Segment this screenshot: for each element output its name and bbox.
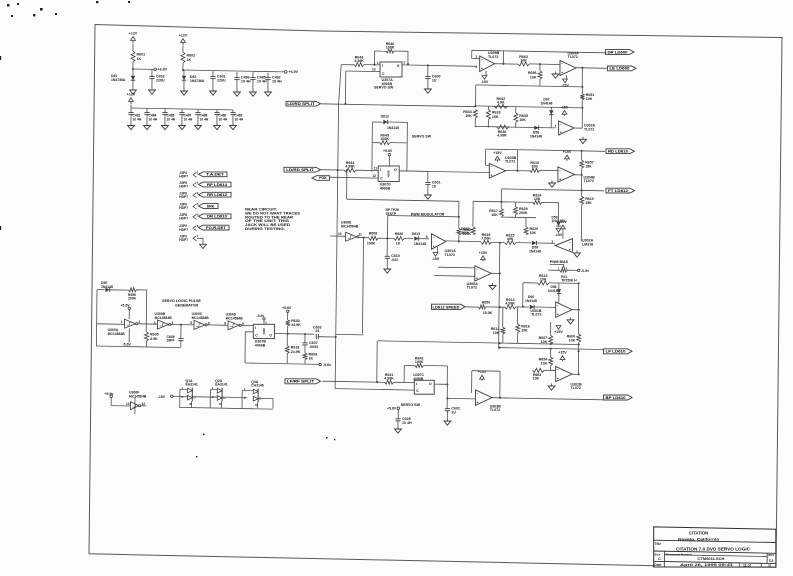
svg-text:+: +	[477, 401, 479, 405]
capacitor C607	[302, 341, 318, 349]
wire net498 vert	[499, 243, 500, 350]
label U300C	[192, 312, 210, 320]
power +12V node 1	[129, 32, 138, 44]
svg-text:10K: 10K	[540, 277, 547, 281]
wire U300D out	[242, 324, 254, 326]
wire osc loop top b	[110, 289, 129, 291]
resistor R616	[516, 324, 530, 333]
label D61	[111, 74, 126, 82]
wire U301B out	[572, 309, 579, 311]
op-amp U305B	[480, 56, 495, 72]
label SERVO SW U307C	[401, 403, 421, 407]
wire C605 gnd	[397, 421, 399, 427]
wire R643 in	[341, 64, 354, 66]
title text Novato	[678, 536, 720, 541]
label SERVO SW U307D	[412, 134, 432, 138]
diode D56	[534, 126, 538, 130]
label U300B	[155, 312, 173, 320]
resistor R624	[533, 193, 542, 204]
wire R645 left	[372, 142, 379, 144]
net tag RD LD610	[606, 149, 635, 154]
wire U307D out to pin6	[399, 171, 487, 173]
wire C485 to gnd	[252, 80, 254, 90]
pin 6 U300C	[208, 321, 210, 325]
svg-text:R650: R650	[482, 300, 490, 304]
wire R640 right	[407, 51, 409, 64]
svg-text:D613: D613	[412, 232, 420, 236]
svg-text:+: +	[476, 276, 478, 280]
junction long net LDRD2	[337, 169, 339, 171]
svg-text:10 4H: 10 4H	[133, 117, 142, 121]
junction LE tap	[581, 67, 583, 69]
wire U303B pin6 stub	[487, 172, 490, 174]
wire C610 stub	[386, 238, 388, 256]
svg-text:-15V: -15V	[481, 80, 489, 84]
svg-text:8: 8	[224, 322, 226, 326]
wire R644 to U307D	[356, 169, 378, 171]
svg-text:2: 2	[404, 61, 406, 65]
label R11	[561, 275, 577, 283]
svg-text:10K: 10K	[530, 231, 537, 235]
svg-text:10K: 10K	[519, 118, 526, 122]
svg-text:FO.R.DET: FO.R.DET	[206, 226, 227, 230]
power +15V U301B	[554, 326, 563, 335]
wire R616 top	[517, 307, 519, 324]
label C485	[167, 114, 176, 122]
label D62	[190, 75, 205, 83]
wire C485 stub	[164, 109, 166, 113]
svg-text:CA3146: CA3146	[251, 383, 264, 387]
label D58 upper	[548, 285, 560, 293]
label PWM BIAS	[550, 260, 569, 264]
label U300D	[226, 312, 244, 320]
junction R654 top	[550, 348, 552, 350]
svg-text:10K: 10K	[493, 331, 500, 335]
wire U305B pin2 drop	[471, 50, 473, 58]
net label +5.6V R630	[282, 306, 292, 310]
wire D612 loop top r	[388, 121, 408, 123]
transistor pair Q3A	[242, 380, 264, 408]
wire fb rail217	[388, 216, 459, 217]
ground C485	[250, 90, 257, 97]
svg-text:TL072: TL072	[571, 386, 581, 390]
svg-text:1K: 1K	[137, 57, 142, 61]
junction FT tap	[581, 190, 583, 192]
svg-text:10 4H: 10 4H	[272, 80, 282, 84]
wire C485 gnd	[164, 115, 166, 123]
capacitor C602b	[445, 407, 460, 415]
label D60	[525, 295, 537, 303]
svg-text:Title: Title	[655, 542, 662, 546]
wire Q1-Q2	[192, 396, 217, 399]
svg-text:-5.6V: -5.6V	[123, 342, 132, 346]
junction U301B out	[578, 309, 580, 311]
title text CITATION	[689, 531, 708, 536]
wire R663b to pin	[544, 369, 556, 371]
wire RD feedback net	[486, 149, 605, 151]
resistor R650	[479, 305, 486, 309]
svg-text:−: −	[557, 304, 559, 308]
net stub +6.9V a	[154, 68, 157, 71]
svg-text:−: −	[433, 235, 435, 239]
junction U302B fb	[578, 373, 580, 375]
resistor R609	[303, 352, 317, 360]
wire C600 stub	[427, 65, 429, 76]
power +12V node 2	[179, 34, 188, 46]
wire osc loop left	[95, 290, 98, 346]
net tag BP LD610	[604, 395, 633, 400]
resistor R651	[580, 93, 594, 101]
wire gate-out vert	[363, 238, 364, 333]
wire U305B out	[495, 63, 518, 65]
svg-text:−: −	[559, 169, 561, 173]
ground D62	[181, 89, 188, 96]
svg-text:24.9K: 24.9K	[291, 323, 301, 327]
svg-text:10K: 10K	[586, 97, 593, 101]
connector pin J3P5	[179, 181, 199, 189]
label U306A	[467, 282, 479, 290]
net tag FO.R.DET	[199, 225, 230, 230]
resistor R656	[528, 71, 542, 80]
wire U307B ctrl	[244, 332, 246, 363]
svg-text:10K: 10K	[465, 114, 472, 118]
junction rail2 right	[581, 107, 583, 109]
svg-text:+: +	[569, 248, 571, 252]
ground C605	[395, 427, 402, 434]
svg-text:100K: 100K	[415, 360, 424, 364]
net tag T.A.DET	[199, 172, 228, 177]
wire LDRD to R644	[321, 169, 345, 171]
wire R641 to U307C	[394, 381, 415, 383]
wire osc loop top a	[97, 289, 105, 291]
wire osc loop right	[145, 290, 148, 332]
svg-text:11 of: 11 of	[743, 564, 752, 568]
diode D59	[532, 241, 536, 245]
ground LM318	[574, 250, 581, 257]
svg-text:TL072: TL072	[445, 253, 455, 257]
net tag RF LD614	[199, 182, 232, 187]
svg-text:-15V: -15V	[555, 233, 563, 237]
resistor R642	[415, 356, 424, 367]
net tag LF LD610	[604, 349, 633, 354]
wire R629 bot	[515, 215, 517, 218]
pin 3 U305B	[476, 65, 478, 69]
capacitor C606	[178, 339, 183, 341]
capacitor C481	[128, 113, 133, 115]
net stub -0.9v	[578, 269, 580, 271]
wire U302A out	[574, 127, 582, 129]
diode D58 upper	[557, 289, 561, 293]
wire R608 to C610	[378, 237, 394, 239]
pin 12 U306F	[142, 402, 146, 406]
resistor R619	[530, 161, 540, 172]
label U303B	[505, 156, 517, 164]
resistor R630	[286, 319, 301, 327]
junction fb rail	[458, 216, 460, 218]
junction C607 tap	[304, 333, 306, 335]
inverter U300B	[158, 320, 171, 329]
wire rail217	[501, 216, 536, 219]
net stub +5.6V U307D	[388, 153, 390, 155]
svg-text:+: +	[491, 173, 493, 177]
wire D612 loop top l	[372, 121, 383, 123]
svg-text:15.0K: 15.0K	[483, 311, 493, 315]
label R650 osc	[128, 293, 137, 301]
pin 5 U301A	[426, 235, 428, 239]
svg-text:O: O	[394, 168, 397, 172]
op-amp U303B	[489, 164, 505, 179]
power +12V node 3	[127, 93, 136, 105]
svg-text:SERVO SW: SERVO SW	[401, 403, 421, 407]
svg-text:O: O	[429, 382, 432, 386]
svg-text:−: −	[561, 62, 563, 66]
svg-text:EA3141: EA3141	[186, 382, 198, 386]
pin 9 U300D	[242, 322, 244, 326]
svg-text:1N4148: 1N4148	[541, 102, 553, 106]
wire U303Bb loop top	[472, 370, 500, 373]
net label -5.6V osc	[123, 342, 132, 346]
wire out down R660	[577, 310, 579, 334]
wire R605 bot	[145, 341, 147, 347]
wire U304A pwr stub	[566, 75, 568, 79]
wire C483 stub	[232, 110, 234, 113]
resistor R634	[463, 109, 477, 118]
wire J3P3 gnd	[197, 238, 203, 243]
svg-text:LF LD610: LF LD610	[606, 350, 626, 354]
wire U303Bb loop left	[471, 371, 473, 393]
wire C607 top	[304, 334, 306, 343]
svg-text:10K: 10K	[491, 213, 498, 217]
svg-text:O: O	[397, 64, 400, 68]
resistor R641	[384, 373, 394, 384]
svg-text:O: O	[269, 333, 272, 337]
label R663b	[533, 373, 541, 381]
resistor R667	[539, 335, 553, 344]
inverter U306F	[131, 402, 141, 410]
svg-text:TL072: TL072	[467, 286, 477, 290]
svg-text:I: I	[380, 168, 381, 172]
connector pin J3P3	[179, 234, 199, 242]
svg-text:1: 1	[555, 125, 557, 129]
svg-text:1U: 1U	[451, 411, 456, 415]
wire long net vert lower	[335, 104, 338, 382]
wire C601 top	[212, 71, 214, 77]
svg-text:C: C	[658, 556, 661, 561]
wire DR tap up	[502, 51, 504, 64]
wire Q2-Q3	[222, 396, 247, 399]
wire R635 top	[515, 107, 517, 113]
pin 1 U302A	[555, 125, 557, 129]
svg-text:+5.6V: +5.6V	[282, 306, 292, 310]
capacitor C601b	[425, 181, 440, 189]
resistor R649	[481, 233, 491, 244]
net tag LD612 SPEED	[432, 304, 466, 309]
wire R612 top	[502, 307, 504, 327]
svg-text:MC14584B: MC14584B	[155, 316, 173, 320]
ground U302B	[548, 384, 555, 391]
label U307C	[413, 373, 424, 381]
power -15V U305B	[481, 76, 489, 85]
title block frame	[654, 527, 776, 567]
wire Q3 out loop	[258, 399, 273, 409]
net tag FOK	[312, 176, 330, 181]
label R650	[482, 300, 493, 315]
junction gate out	[363, 237, 365, 239]
wire R654 top	[550, 349, 552, 358]
label C481	[133, 114, 142, 122]
svg-text:24.9K: 24.9K	[291, 350, 301, 354]
ground C484	[144, 123, 151, 130]
svg-text:HDP7: HDP7	[179, 217, 188, 221]
wire U300A in	[97, 323, 125, 326]
svg-text:4.9K: 4.9K	[497, 101, 505, 105]
diode D67	[549, 110, 553, 114]
svg-text:+12V: +12V	[129, 32, 138, 36]
title label REV	[768, 553, 774, 557]
junction D61 node	[132, 68, 134, 70]
resistor R663	[518, 55, 530, 66]
pin 8 U300D	[224, 322, 226, 326]
svg-text:I: I	[255, 326, 256, 330]
junction R630 bot	[287, 333, 289, 335]
svg-text:-15V: -15V	[158, 395, 166, 399]
wire C607-R609	[304, 345, 306, 353]
label U303Bb	[490, 404, 502, 412]
svg-text:BP LD610: BP LD610	[606, 396, 626, 400]
resistor R662b	[457, 228, 471, 236]
net stub +5.6V R630	[287, 310, 289, 312]
power +15V U304B	[563, 150, 572, 161]
resistor R613	[538, 274, 550, 285]
svg-text:100K: 100K	[380, 137, 389, 141]
wire C481 gnd	[130, 115, 132, 123]
svg-text:FT LD612: FT LD612	[608, 189, 628, 193]
svg-text:April 26, 1999 09:41: April 26, 1999 09:41	[680, 563, 733, 567]
wire U300C out	[208, 324, 229, 326]
wire R642 left drop	[403, 366, 405, 382]
svg-text:TL072: TL072	[584, 179, 594, 183]
junction C606 tap	[180, 324, 182, 326]
wire R602 top	[182, 46, 184, 52]
wire +12V row3	[130, 105, 132, 108]
net stub -15V Q	[171, 395, 173, 397]
wire R609 bot	[304, 360, 306, 364]
svg-text:10K: 10K	[530, 76, 537, 80]
junction U303B fb	[517, 170, 519, 172]
wire U301A out	[446, 240, 482, 243]
wire C482 to gnd	[267, 80, 269, 90]
ground C482	[265, 90, 272, 97]
capacitor C605	[395, 417, 412, 425]
svg-text:FOK: FOK	[319, 176, 327, 180]
pin 13 U307A	[372, 67, 376, 71]
junction U306A out	[499, 272, 501, 274]
rail -5.6V bottom	[245, 363, 319, 364]
wire U304B out	[575, 174, 582, 176]
capacitor C610	[385, 254, 400, 262]
pin 2 U307B	[265, 320, 267, 324]
wire R645 right	[390, 142, 408, 144]
analog switch U307C x	[414, 380, 434, 394]
svg-text:CITATION: CITATION	[689, 531, 708, 536]
svg-text:10 4H: 10 4H	[257, 80, 267, 84]
svg-text:300K: 300K	[462, 232, 471, 236]
svg-text:1: 1	[551, 239, 553, 243]
wire R610 to LM318	[580, 205, 582, 242]
power +15V U303B	[493, 151, 502, 162]
pin 1 U307A	[377, 61, 379, 65]
junction C610 tap	[386, 237, 388, 239]
wire BP net	[492, 398, 603, 400]
wire C602 top	[151, 69, 153, 76]
ground U302A	[580, 137, 587, 144]
op-amp U302B	[556, 367, 572, 382]
net label +5.6V U307C	[387, 406, 397, 410]
wire C602b gnd	[446, 411, 448, 419]
wire C482 top	[267, 73, 269, 78]
resistor R633	[486, 109, 500, 119]
ground U306A	[489, 283, 496, 290]
svg-text:+12V: +12V	[127, 93, 136, 97]
pin 1 U300A	[121, 320, 123, 324]
capacitor C601	[210, 75, 226, 83]
wire R613 right	[549, 282, 579, 285]
wire D59 to LM318	[536, 242, 555, 244]
wire R640 left	[373, 51, 375, 65]
connector pin J3P6	[179, 191, 199, 199]
wire SPEED to R650	[465, 306, 479, 308]
wire R610 top	[581, 191, 583, 197]
svg-text:+: +	[433, 245, 435, 249]
wire C487 gnd	[181, 115, 183, 123]
label U301A	[445, 249, 457, 257]
resistor R643	[354, 56, 364, 67]
net label +5.6V osc	[121, 303, 131, 307]
svg-text:3: 3	[154, 321, 156, 325]
wire R643 to U307A	[364, 64, 380, 66]
svg-text:SERVO SW: SERVO SW	[374, 86, 394, 90]
pin 3 U300B	[154, 321, 156, 325]
wire U306A out	[491, 272, 500, 274]
wire C481 stub	[130, 108, 132, 113]
svg-text:1N4736A: 1N4736A	[111, 78, 126, 82]
svg-text:-15V: -15V	[559, 220, 567, 224]
ground C488	[195, 123, 202, 130]
svg-text:R626: R626	[395, 232, 403, 236]
diode D613	[414, 236, 418, 240]
net stub -5.6V rail	[319, 363, 321, 365]
wire D58b top	[557, 202, 559, 221]
ground near U304A	[552, 72, 559, 79]
svg-text:HDP7: HDP7	[179, 206, 188, 210]
wire -15V to Q1	[173, 396, 189, 398]
svg-text:1N4148: 1N4148	[529, 249, 541, 253]
wire R618 bot	[286, 353, 288, 363]
svg-text:10K: 10K	[492, 115, 499, 119]
capacitor C485	[162, 113, 167, 115]
ground C600	[425, 87, 432, 94]
svg-text:-0.9v: -0.9v	[581, 269, 589, 273]
wire C601 to gnd	[212, 79, 214, 89]
wire D67 top	[550, 107, 552, 110]
wire to U303Bb	[447, 397, 475, 400]
svg-text:10K: 10K	[569, 339, 576, 343]
net stub U307B top	[263, 318, 265, 320]
svg-text:HDP7: HDP7	[179, 185, 188, 189]
wire LF net	[500, 348, 603, 350]
wire U304B out down	[581, 175, 583, 191]
wire U307A pin13	[346, 70, 380, 73]
